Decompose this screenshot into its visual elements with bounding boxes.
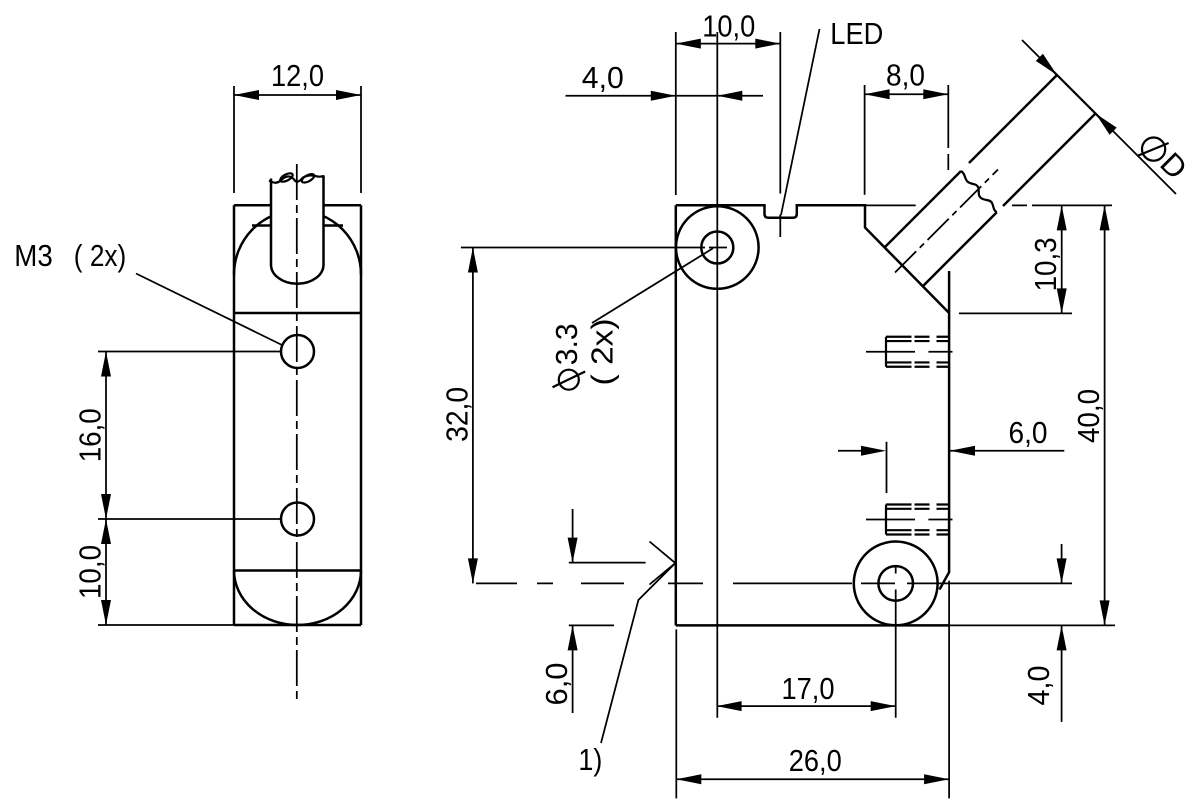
svg-text:( 2x): ( 2x) <box>74 238 127 273</box>
right view body outline with LED notch and chamfer <box>676 205 949 625</box>
svg-text:3.3: 3.3 <box>549 323 584 365</box>
barrel end face <box>1049 67 1104 122</box>
threaded hole M3 top side view <box>886 337 912 367</box>
svg-text:LED: LED <box>830 16 883 51</box>
svg-text:16,0: 16,0 <box>73 408 108 462</box>
dim 40,0 <box>1104 205 1106 625</box>
dim 8,0 <box>865 85 949 195</box>
threaded hole M3 bottom side view <box>886 505 912 535</box>
top dome arc <box>234 211 361 275</box>
bottom-right screw hole inner <box>878 566 913 601</box>
dim 26,0 <box>676 581 949 799</box>
dim 6,0 thread depth <box>838 442 1064 493</box>
svg-text:12,0: 12,0 <box>271 58 324 93</box>
leader LED <box>781 29 820 215</box>
dim 6,0 bottom left <box>569 509 646 713</box>
bottom dome arc <box>234 571 361 626</box>
connector axis centerline <box>895 170 998 273</box>
cable break wavy line <box>269 175 325 182</box>
collar break wavy <box>961 171 997 212</box>
dim 12,0 <box>234 86 361 193</box>
svg-text:1): 1) <box>578 742 602 777</box>
vertical centerline bottom hole <box>895 566 897 718</box>
label phi 3.3 (2x) <box>559 370 579 390</box>
dim 10,0 top <box>676 32 781 237</box>
dim 16,0 / 10,0 chain <box>98 352 281 626</box>
dim 4,0 top <box>566 95 764 97</box>
leader phi 3.3 <box>592 248 713 323</box>
leader M3 <box>136 274 283 346</box>
phi symbol <box>1142 138 1165 161</box>
dim 4,0 bottom right <box>950 544 1115 722</box>
leader 1) with open arrow <box>601 542 675 744</box>
svg-text:40,0: 40,0 <box>1071 389 1106 443</box>
dim 17,0 <box>717 705 896 707</box>
hole 2 M3 <box>281 503 314 536</box>
svg-text:8,0: 8,0 <box>886 58 925 93</box>
svg-text:6,0: 6,0 <box>1009 415 1048 450</box>
svg-text:( 2x): ( 2x) <box>585 319 620 386</box>
dim 10,3 <box>1061 205 1063 313</box>
svg-text:4,0: 4,0 <box>1021 666 1056 706</box>
horizontal centerline through bottom hole <box>476 582 1072 584</box>
svg-text:10,0: 10,0 <box>73 545 108 599</box>
vertical ext line through top hole <box>716 32 718 718</box>
svg-text:17,0: 17,0 <box>782 671 835 706</box>
cable tube <box>271 177 324 284</box>
bottom-right screw hole outer boss <box>854 542 938 626</box>
svg-text:10,0: 10,0 <box>702 9 755 44</box>
svg-text:6,0: 6,0 <box>539 663 574 706</box>
dim phi D line <box>1022 40 1176 194</box>
section line <box>234 312 361 315</box>
vertical centerline <box>296 164 298 700</box>
svg-text:4,0: 4,0 <box>582 60 624 95</box>
top-left screw hole outer <box>676 206 759 289</box>
top chord line <box>252 224 343 227</box>
top-left screw hole inner <box>701 232 733 264</box>
hole 1 M3 <box>281 335 314 368</box>
svg-text:32,0: 32,0 <box>440 387 475 442</box>
ext line y=313 chamfer base <box>959 312 1072 314</box>
bottom chord line <box>234 569 361 572</box>
dim 32,0 <box>461 248 727 584</box>
ext line y=205 right <box>865 204 1112 206</box>
svg-text:10,3: 10,3 <box>1028 237 1063 291</box>
left view housing outline <box>234 205 361 625</box>
svg-text:M3: M3 <box>14 238 53 273</box>
connector barrel far section <box>969 75 1096 206</box>
connector collar near section <box>885 171 997 286</box>
svg-text:26,0: 26,0 <box>789 743 842 778</box>
